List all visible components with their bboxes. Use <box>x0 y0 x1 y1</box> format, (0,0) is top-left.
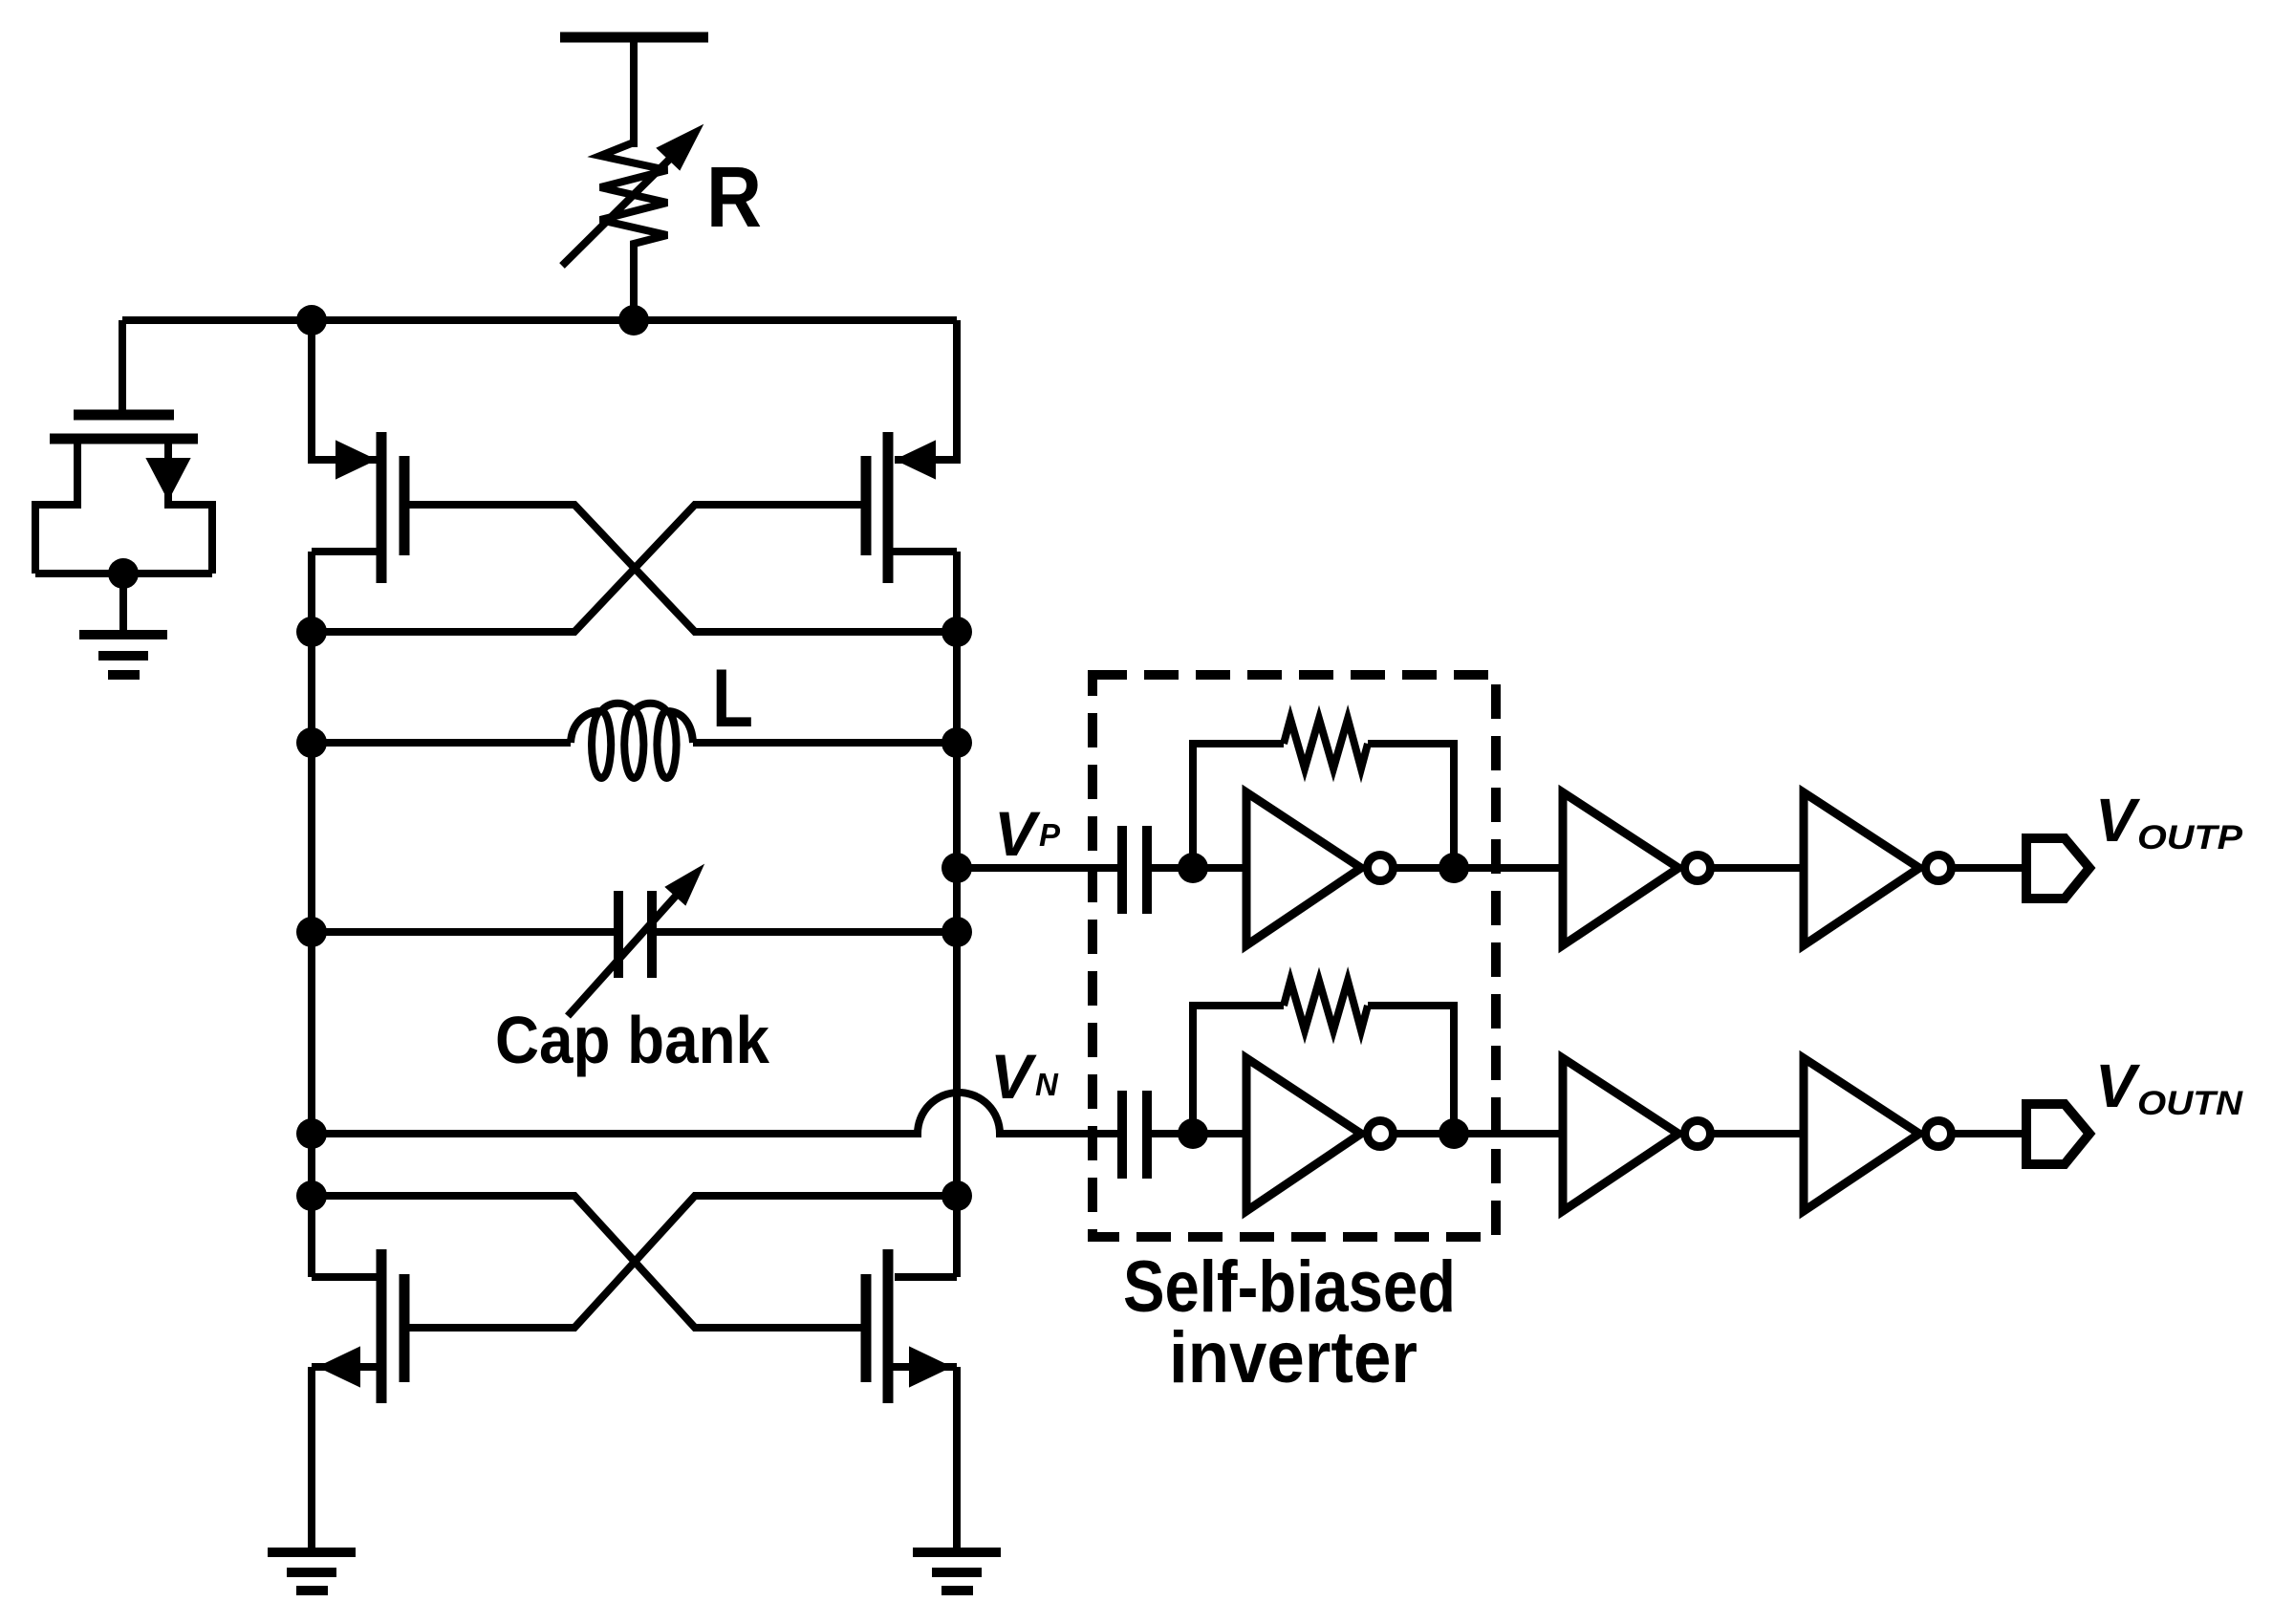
svg-text:Self-biased: Self-biased <box>1123 1246 1456 1328</box>
svg-text:V: V <box>994 798 1041 869</box>
junction U1 output <box>1439 853 1469 883</box>
transistor M3 (left cross-coupled NMOS) <box>312 1249 404 1548</box>
MOS capacitor (decap transistor, gate to VDD) <box>35 320 212 574</box>
inverter U6 <box>1804 1058 1952 1211</box>
capacitor cap bank (variable) <box>312 866 957 1016</box>
label VN <box>990 1041 1059 1112</box>
junction U4 output <box>1439 1118 1469 1149</box>
wire NMOS left gate to right drain (cross coupling) <box>404 1196 957 1328</box>
junction VDD rail center <box>618 305 649 336</box>
inverter U4 (self-biased) <box>1246 1058 1394 1211</box>
inverter U1 (self-biased) <box>1246 792 1394 945</box>
svg-text:R: R <box>706 150 762 246</box>
svg-text:V: V <box>990 1041 1037 1112</box>
junction VDD rail left <box>296 305 327 336</box>
junction bottom drain left <box>296 1180 327 1211</box>
wire VP to coupling cap <box>957 864 1122 872</box>
junction VN left rail <box>296 1118 327 1149</box>
inverter U3 <box>1804 792 1952 945</box>
svg-text:V: V <box>2095 786 2141 855</box>
junction left drain node <box>296 617 327 647</box>
label VP <box>994 798 1061 869</box>
power supply tee (VDD) <box>560 37 708 147</box>
junction U4 input <box>1178 1118 1208 1149</box>
svg-text:V: V <box>2095 1051 2141 1120</box>
label Self-biased inverter <box>1123 1246 1456 1398</box>
inverter U2 <box>1563 792 1711 945</box>
junction bottom drain right <box>941 1180 972 1211</box>
wire U1 to U2 <box>1396 864 1563 872</box>
capacitor C2 (VN coupling cap) <box>1122 1091 1246 1179</box>
node VP junction <box>941 853 972 883</box>
transistor M1 (left cross-coupled PMOS) <box>312 320 404 583</box>
svg-text:Cap bank: Cap bank <box>495 1003 769 1077</box>
wire VN from left rail with hop over right rail <box>312 1093 1122 1134</box>
wire U2 to U3 <box>1713 864 1804 872</box>
ground (under MOS cap) <box>79 635 167 675</box>
svg-text:L: L <box>712 653 753 745</box>
wire PMOS left gate to right drain (cross coupling) <box>404 505 957 632</box>
junction cap bank left <box>296 917 327 947</box>
ground (right NMOS source) <box>913 1552 1001 1591</box>
output buffer VOUTN <box>2026 1104 2089 1164</box>
resistor R1 (U1 feedback) <box>1193 719 1454 868</box>
svg-text:N: N <box>1035 1067 1059 1102</box>
svg-text:P: P <box>1039 817 1061 853</box>
capacitor C1 (VP coupling cap) <box>1122 826 1246 914</box>
inverter U5 <box>1563 1058 1711 1211</box>
junction cap bank right <box>941 917 972 947</box>
transistor M4 (right cross-coupled NMOS) <box>866 1249 957 1548</box>
label VOUTP <box>2095 786 2243 856</box>
label VOUTN <box>2095 1051 2243 1122</box>
wire U5 to U6 <box>1713 1130 1804 1137</box>
wire NMOS right gate to left drain (cross coupling) <box>312 1196 866 1328</box>
svg-text:OUTP: OUTP <box>2137 819 2243 856</box>
junction inductor right <box>941 727 972 758</box>
wire VDD rail <box>122 316 957 324</box>
wire U6 to output buffer <box>1954 1130 2026 1137</box>
wire U3 to output buffer <box>1954 864 2026 872</box>
junction right drain node <box>941 617 972 647</box>
wire left tank rail <box>308 552 315 1277</box>
wire MOS cap to ground <box>119 574 127 635</box>
resistor R (variable, with arrow) <box>562 126 702 320</box>
inductor L <box>312 704 957 778</box>
ground (left NMOS source) <box>268 1552 356 1591</box>
svg-text:inverter: inverter <box>1169 1317 1418 1398</box>
wire U4 to U5 <box>1396 1130 1563 1137</box>
junction inductor left <box>296 727 327 758</box>
svg-text:OUTN: OUTN <box>2137 1085 2243 1122</box>
output buffer VOUTP <box>2026 838 2089 899</box>
junction U1 input <box>1178 853 1208 883</box>
wire PMOS right gate to left drain (cross coupling) <box>312 505 866 632</box>
resistor R2 (U4 feedback) <box>1193 981 1454 1134</box>
wire right tank rail <box>953 552 961 1277</box>
transistor M2 (right cross-coupled PMOS) <box>866 320 957 583</box>
junction MOS cap source/drain to ground <box>108 558 139 589</box>
dashed box self-biased inverter <box>1093 675 1496 1237</box>
